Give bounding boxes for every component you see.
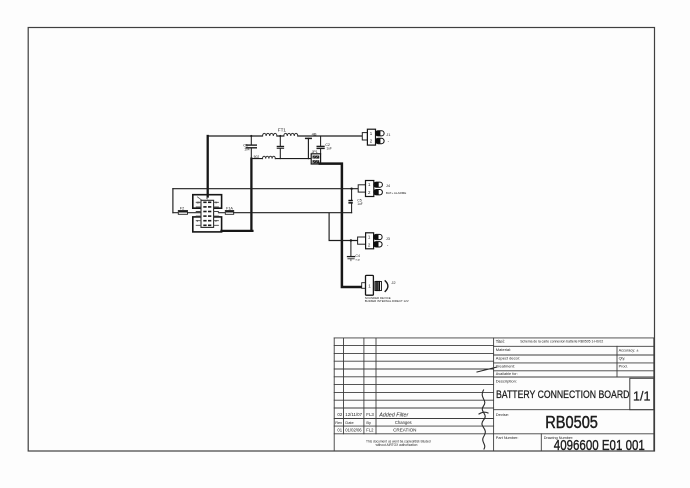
revision row 02 (337, 412, 408, 418)
svg-text:RB0505: RB0505 (545, 412, 598, 432)
node dot mid top (279, 135, 281, 137)
connector J3 (358, 233, 391, 249)
inductor FT1 winding lower (263, 156, 276, 158)
connector J1 (362, 129, 391, 145)
svg-text:1/1: 1/1 (633, 389, 651, 403)
main title block grid (494, 338, 654, 451)
svg-text:BAT+ ALARME: BAT+ ALARME (386, 191, 406, 195)
capacitor C2 (317, 143, 332, 151)
revision row 01 (337, 428, 416, 433)
svg-text:Available for:: Available for: (496, 372, 518, 376)
svg-text:F1A: F1A (226, 207, 233, 211)
wire C2 lower branch (320, 149, 322, 154)
svg-text:10: 10 (197, 200, 201, 204)
svg-text:Changes: Changes (395, 420, 412, 425)
wire C2 upper branch (320, 136, 322, 146)
svg-text:By: By (366, 420, 371, 425)
svg-text:Qty.: Qty. (619, 357, 626, 361)
svg-text:BATTERY CONNECTION BOARD: BATTERY CONNECTION BOARD (496, 389, 629, 401)
svg-text:Titel:: Titel: (496, 339, 505, 344)
wire C1 lower branch (250, 148, 252, 158)
svg-text:CREATION: CREATION (393, 428, 416, 433)
svg-text:104: 104 (244, 147, 250, 151)
svg-text:Rev: Rev (335, 420, 342, 425)
wire C1 upper branch (250, 136, 252, 145)
svg-text:Accuracy: ±: Accuracy: ± (619, 348, 639, 352)
wire lower winding line (251, 158, 311, 160)
drawing frame (28, 28, 654, 452)
fuse F1A (225, 207, 233, 215)
inductor FT1 winding top-left (263, 133, 277, 136)
wire to fuse F2 (173, 212, 178, 214)
svg-text:12/11/07: 12/11/07 (345, 412, 362, 417)
revision table grid (334, 338, 654, 451)
svg-text:Devise:: Devise: (496, 412, 509, 417)
capacitor C1 (243, 144, 256, 152)
wire F1A to J3 with corner (234, 213, 358, 241)
disclaimer box (366, 439, 431, 447)
wire K1 to fuse F1A (218, 212, 225, 214)
wire thick JP1 to bus down to buzzer (320, 164, 362, 287)
svg-text:Treatment:: Treatment: (496, 363, 515, 368)
connector J4 (358, 181, 406, 197)
svg-text:Added Filter: Added Filter (378, 412, 408, 418)
sheet 1/1 box (630, 378, 654, 409)
svg-text:FL2: FL2 (366, 428, 374, 433)
inductor FT1 winding top-right (284, 133, 298, 136)
svg-text:BUZZER INTERNAL DIRECT 12V: BUZZER INTERNAL DIRECT 12V (365, 299, 409, 303)
node dot J3 tap (350, 239, 352, 241)
svg-text:01/02/06: 01/02/06 (345, 428, 362, 433)
wire left loop vertical (172, 189, 174, 213)
svg-text:4B: 4B (312, 131, 317, 136)
jumper JP1 (311, 150, 320, 164)
svg-text:F2: F2 (180, 207, 184, 211)
svg-text:FT1: FT1 (278, 127, 287, 132)
signature squiggle (477, 367, 497, 449)
svg-text:1uF: 1uF (357, 202, 363, 206)
svg-text:n.p: n.p (356, 258, 361, 262)
wire F2 to K1 (188, 212, 202, 214)
buzzer J2 (362, 275, 409, 303)
svg-text:Date: Date (345, 420, 353, 425)
node dot C1 top (250, 135, 252, 137)
svg-text:4: 4 (206, 196, 208, 200)
svg-text:without AIRTOX authorization: without AIRTOX authorization (376, 443, 418, 447)
revision header row (335, 420, 411, 425)
svg-text:Schema de la carte connexion b: Schema de la carte connexion batterie RB… (520, 340, 603, 344)
capacitor C5 (348, 189, 362, 213)
svg-text:Material:: Material: (496, 347, 511, 352)
wire top line node A to J1 (208, 135, 363, 137)
svg-text:02: 02 (337, 412, 342, 417)
svg-text:01: 01 (337, 428, 342, 433)
svg-text:4096600 E01 001: 4096600 E01 001 (554, 438, 645, 454)
wire thick vertical from node A to relay K1 (207, 136, 209, 197)
svg-text:Description:: Description: (496, 378, 517, 383)
svg-text:Aspect decor:: Aspect decor: (496, 355, 520, 360)
svg-text:Prod.: Prod. (619, 364, 628, 368)
wire thick from C1 node down to K1 bottom (222, 159, 253, 231)
capacitor mid between windings (277, 136, 283, 159)
capacitor C3 feedthrough T-bar (306, 138, 312, 158)
svg-text:1uF: 1uF (326, 146, 332, 150)
fuse F2 (178, 207, 187, 215)
node dot J4 tap (350, 188, 352, 190)
capacitor C4 not placed (348, 241, 361, 262)
svg-text:502: 502 (254, 155, 260, 159)
relay K1 (193, 195, 222, 232)
svg-text:FL3: FL3 (366, 412, 374, 417)
titel row (496, 339, 604, 344)
svg-text:Part Number:: Part Number: (496, 436, 519, 440)
wire J4 long line from left loop (173, 188, 358, 190)
